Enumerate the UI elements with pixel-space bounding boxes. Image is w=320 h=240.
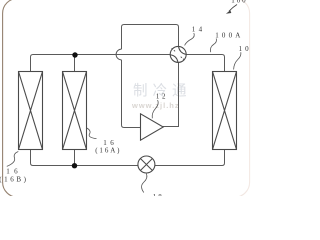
watermark: [131, 83, 192, 111]
leader 16A: [87, 128, 97, 139]
svg-text:16: 16: [6, 167, 22, 175]
svg-text:16: 16: [103, 139, 117, 147]
wire: discharge line, four-way valve bottom port to compressor outlet: [163, 62, 179, 126]
svg-text:100A: 100A: [215, 31, 243, 39]
leader 10: [234, 52, 241, 69]
svg-text:100: 100: [231, 0, 247, 5]
label 18 (bottom, cut off) + leader from expansion valve: [142, 174, 147, 193]
wire hop: suction line jumps over top bus: [116, 49, 121, 60]
leader 12: [152, 100, 158, 118]
arrow for label 100: [229, 5, 237, 12]
wire: suction loop (compressor inlet) left/top run: [122, 60, 141, 128]
heat exchanger 10 (outdoor): [213, 72, 237, 150]
svg-text:(16A): (16A): [95, 147, 121, 155]
wire: HX2 top drop from bus: [74, 55, 76, 72]
wire: bottom bus from HX1 bottom to expansion valve and to outdoor HX: [31, 150, 138, 166]
heat exchanger 16B (indoor unit left): [19, 72, 43, 150]
heat exchanger 16A (indoor unit right): [63, 72, 87, 150]
svg-text:10: 10: [239, 45, 252, 53]
node: junction dot on bottom bus: [72, 163, 77, 168]
svg-text:18: 18: [153, 193, 164, 196]
four-way valve 14: [170, 46, 186, 62]
leader 14: [185, 33, 195, 45]
expansion valve (circle with X): [138, 156, 155, 173]
card border frame: [3, 0, 250, 197]
svg-text:12: 12: [156, 93, 168, 101]
node: junction dot on top bus: [72, 52, 77, 57]
wire: top bus (indoor line) from HX1 top to four-way valve left port, with junction: [31, 55, 171, 72]
leader 16B: [7, 152, 18, 167]
wire: valve right port to outdoor HX top: [186, 55, 224, 72]
svg-text:(16B): (16B): [0, 175, 29, 183]
compressor 12 (triangle): [141, 114, 164, 140]
svg-text:14: 14: [192, 26, 206, 34]
leader 100A: [210, 39, 216, 53]
